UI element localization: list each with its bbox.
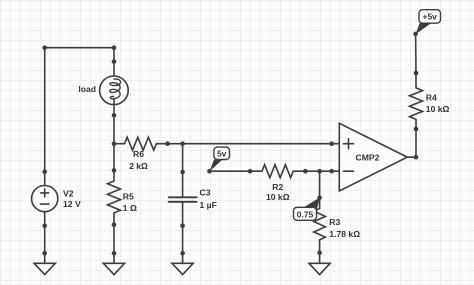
label 0.75 callout bbox=[294, 198, 320, 221]
svg-text:load: load bbox=[78, 84, 96, 94]
svg-text:R4: R4 bbox=[426, 93, 437, 103]
svg-text:0.75: 0.75 bbox=[297, 209, 314, 219]
wire load branch top bbox=[113, 48, 115, 62]
svg-text:2 kΩ: 2 kΩ bbox=[129, 161, 148, 171]
ground under R5 bbox=[103, 251, 124, 275]
resistor R3 1.78 kOhm (vertical) bbox=[314, 198, 360, 253]
svg-text:CMP2: CMP2 bbox=[356, 153, 380, 163]
ground under R3 bbox=[309, 250, 330, 274]
svg-text:V2: V2 bbox=[63, 189, 74, 199]
svg-text:12 V: 12 V bbox=[63, 199, 81, 209]
op-amp comparator CMP2 bbox=[329, 123, 416, 191]
svg-text:1.78 kΩ: 1.78 kΩ bbox=[329, 229, 360, 239]
wire left rail down to V2 bbox=[44, 48, 46, 172]
node junction C3 branch bbox=[180, 141, 185, 146]
svg-text:C3: C3 bbox=[200, 188, 211, 198]
net flag 5v bbox=[207, 147, 229, 173]
resistor R6 2 kOhm (horizontal) bbox=[114, 137, 170, 171]
svg-text:+5v: +5v bbox=[422, 12, 437, 22]
wire R6 to op-amp + input bbox=[168, 143, 332, 145]
svg-text:R3: R3 bbox=[329, 217, 340, 227]
svg-text:10 kΩ: 10 kΩ bbox=[266, 192, 290, 202]
svg-text:10 kΩ: 10 kΩ bbox=[426, 104, 450, 114]
node top-left corner bbox=[42, 45, 47, 50]
voltage source V2 12 V bbox=[32, 169, 81, 228]
node R3 top (0.75 tap) bbox=[317, 196, 322, 201]
svg-text:R2: R2 bbox=[272, 182, 283, 192]
wire C3 to ground bbox=[182, 226, 184, 253]
wire top horizontal from V2 rail to load rail bbox=[45, 47, 114, 49]
load (lamp/coil in circle) bbox=[78, 59, 128, 117]
svg-text:R6: R6 bbox=[133, 149, 144, 159]
wire 5v node to R2 bbox=[210, 170, 251, 172]
resistor R4 10 kOhm (vertical) bbox=[410, 71, 450, 132]
svg-text:R5: R5 bbox=[123, 192, 134, 202]
ground under C3 bbox=[172, 251, 193, 275]
wire V2 to ground bbox=[44, 226, 46, 253]
wire R5 to ground bbox=[113, 225, 115, 254]
wire R4 to +5v node bbox=[415, 34, 417, 73]
net flag +5v bbox=[413, 10, 440, 37]
wire R2 to op-amp - input bbox=[305, 170, 331, 172]
svg-text:1 µF: 1 µF bbox=[200, 200, 217, 210]
svg-text:1 Ω: 1 Ω bbox=[123, 203, 137, 213]
wire junction down to R3 bbox=[319, 171, 321, 198]
node op-amp output junction bbox=[414, 155, 419, 160]
wire load to R6/R5 junction bbox=[113, 115, 115, 143]
resistor R2 10 kOhm (horizontal) bbox=[248, 165, 308, 202]
node junction R3 branch bbox=[317, 169, 322, 174]
node top of load branch bbox=[112, 45, 117, 50]
wire output junction up to R4 bbox=[415, 129, 417, 157]
ground under V2 bbox=[34, 251, 55, 275]
resistor R5 1 Ohm (vertical) bbox=[108, 144, 137, 227]
svg-text:5v: 5v bbox=[217, 149, 227, 159]
capacitor C3 1 uF bbox=[169, 144, 217, 228]
node junction load/R6/R5 bbox=[112, 141, 117, 146]
